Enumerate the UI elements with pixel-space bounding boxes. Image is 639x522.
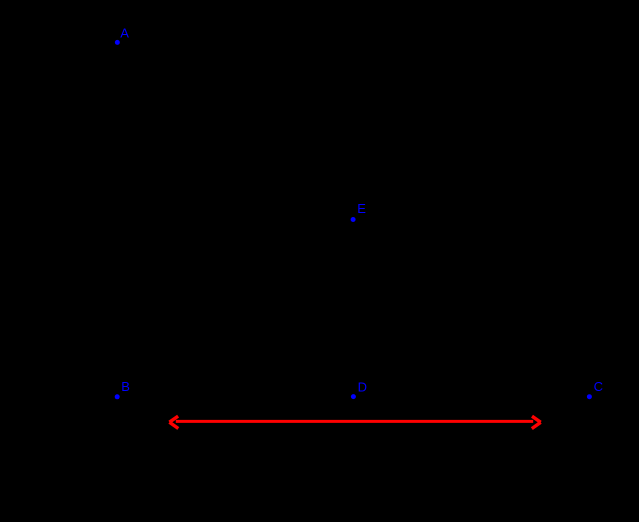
arrow right head lower stroke (532, 422, 541, 428)
svg-text:E: E (357, 201, 366, 216)
point A (115, 40, 120, 45)
arrow left head upper stroke (169, 416, 178, 422)
arrow right head upper stroke (532, 416, 541, 422)
svg-text:A: A (120, 25, 129, 40)
arrow left head lower stroke (169, 422, 178, 428)
point C (587, 394, 592, 399)
point D (351, 394, 356, 399)
svg-text:B: B (121, 379, 130, 394)
point E (351, 217, 356, 222)
svg-text:C: C (594, 379, 603, 394)
svg-text:D: D (358, 379, 367, 394)
arrow shaft (176, 420, 533, 423)
point B (115, 394, 120, 399)
